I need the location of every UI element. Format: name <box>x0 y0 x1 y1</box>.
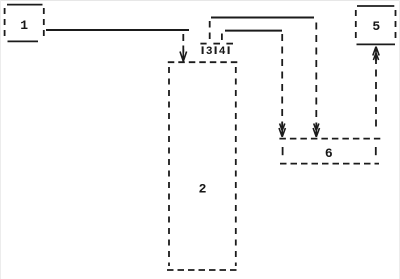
svg-text:1: 1 <box>20 18 28 33</box>
block 5 right edge <box>395 10 397 42</box>
svg-text:2: 2 <box>199 182 207 197</box>
block 4 right bar <box>228 46 230 54</box>
block 3/4 top dash right <box>226 43 233 45</box>
block 3/4 top dash middle <box>213 43 220 45</box>
arrowhead right into block 6 <box>313 123 319 138</box>
bar between block 3 and 4 <box>215 46 217 54</box>
wire B: lower line to right drop <box>225 30 282 32</box>
svg-text:6: 6 <box>325 146 333 161</box>
block 1 bottom edge <box>8 40 39 42</box>
block 1 left edge <box>4 8 6 40</box>
page edge tint right <box>399 0 400 279</box>
block 2 right edge <box>235 67 237 266</box>
svg-text:4: 4 <box>219 46 226 58</box>
arrowhead into block 2 <box>180 49 187 62</box>
block 2 top edge <box>168 61 238 63</box>
wire A: upper line to right drop <box>211 17 314 19</box>
block 6 right edge <box>375 147 377 155</box>
block 2 left edge <box>168 67 170 266</box>
wire drop from wire A into block 6 (right arrow) <box>315 23 317 128</box>
block 3/4 top dash left <box>200 43 206 45</box>
arrow shaft into block 2 <box>182 34 184 60</box>
block 3 left bar <box>202 46 204 54</box>
block 1 right edge <box>43 8 45 40</box>
block 1 top edge <box>7 4 43 6</box>
stub from wire B down to block 4 <box>221 34 223 43</box>
block 6 bottom edge <box>280 163 379 165</box>
stub from wire A down to block 3 <box>209 21 211 42</box>
block 6 left edge <box>282 147 284 155</box>
svg-text:3: 3 <box>206 46 213 58</box>
block 6 top edge <box>279 138 380 140</box>
svg-text:5: 5 <box>372 19 380 34</box>
wire from block 1 to node above block 2 <box>46 29 189 31</box>
wire from block 6 up to block 5 <box>375 57 377 132</box>
block 5 left edge <box>355 10 357 42</box>
block 5 bottom edge <box>357 43 396 45</box>
page edge tint top <box>0 0 400 1</box>
block 2 bottom edge <box>167 269 239 271</box>
arrowhead left into block 6 <box>279 123 285 138</box>
page edge tint left <box>0 0 1 279</box>
block 5 top edge <box>357 5 394 7</box>
arrowhead up into block 5 <box>373 47 379 61</box>
wire drop from wire B into block 6 (left arrow) <box>281 34 283 127</box>
